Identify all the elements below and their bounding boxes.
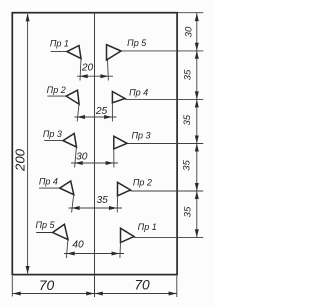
leader Pr3 left [44,140,63,142]
dimension 30row arrows [75,161,114,165]
drop line row2 right [111,103,113,122]
leader Pr4 left [39,187,60,189]
row 2 tie line [125,98,203,100]
dimension 200 arrow top [26,13,30,21]
row 3 tie line [127,143,203,145]
svg-text:30: 30 [183,26,194,37]
drop line row3 right [113,149,115,168]
svg-text:35: 35 [182,160,193,171]
dimension 35row line [69,207,123,209]
row 1 tie line [121,50,203,52]
svg-text:70: 70 [39,278,55,293]
row 4 tie line [131,190,204,192]
row 5 tie line [134,237,203,239]
svg-text:200: 200 [13,148,28,172]
svg-text:Пр 3: Пр 3 [131,130,150,140]
leader Pr1 left [51,51,67,53]
dimension 35row arrows [72,206,117,210]
svg-text:Пр 2: Пр 2 [47,85,66,95]
bottom dimension line [12,293,177,295]
marker Pr2 right [118,182,131,196]
svg-text:Пр 5: Пр 5 [127,38,147,48]
dimension 200 arrow bottom [26,266,30,274]
drop line row5 right [119,243,122,259]
svg-text:40: 40 [72,240,84,251]
svg-text:35: 35 [97,195,109,206]
dimension 40 arrows [67,252,120,256]
marker Pr3 right [114,136,127,149]
svg-text:30: 30 [76,151,88,162]
drop line row4 right [116,196,118,213]
bottom right extension [176,276,178,297]
leader Pr5 left [36,232,52,234]
marker Pr2 left [66,90,79,104]
svg-text:35: 35 [182,206,193,217]
drop line row1 left [80,59,81,81]
marker Pr4 right [112,92,125,103]
marker Pr3 left [63,134,77,148]
right dimension line [196,13,198,238]
marker Pr1 right [121,228,135,242]
bottom left extension [11,276,13,297]
dimension 25 arrows [77,115,112,119]
marker Pr5 right [107,45,122,60]
marker Pr4 left [60,181,74,195]
svg-text:Пр 1: Пр 1 [138,222,157,232]
svg-text:Пр 4: Пр 4 [129,87,148,97]
svg-text:20: 20 [81,63,94,74]
marker Pr5 left [53,224,68,239]
dimension 40 line [64,253,124,255]
right dim arrows [195,13,199,237]
drop line row3 left [75,147,77,167]
dimension 20 line [77,75,113,77]
leader Pr2 left [47,95,66,97]
svg-text:25: 25 [95,106,108,117]
drop line row2 left [77,104,79,121]
marker Pr1 left [67,46,81,59]
drop line row5 left [66,240,68,259]
svg-text:70: 70 [134,278,150,293]
svg-text:Пр 4: Пр 4 [39,176,58,186]
dimension 30row line [71,162,118,164]
svg-text:Пр 2: Пр 2 [133,177,152,187]
dimension 20 arrows [80,74,109,78]
top extension line [178,12,204,14]
dimension 25 line [75,116,117,118]
center line [94,13,96,298]
panel outline [12,13,177,275]
drop line row4 left [72,195,74,213]
dimension 200 line [27,14,29,274]
svg-text:35: 35 [182,114,193,125]
drop line row1 right [107,60,110,81]
svg-text:Пр 3: Пр 3 [43,129,62,139]
svg-text:Пр 5: Пр 5 [35,220,55,230]
svg-text:Пр 1: Пр 1 [50,38,69,48]
bottom dim arrows [13,292,177,296]
svg-text:35: 35 [182,69,193,80]
